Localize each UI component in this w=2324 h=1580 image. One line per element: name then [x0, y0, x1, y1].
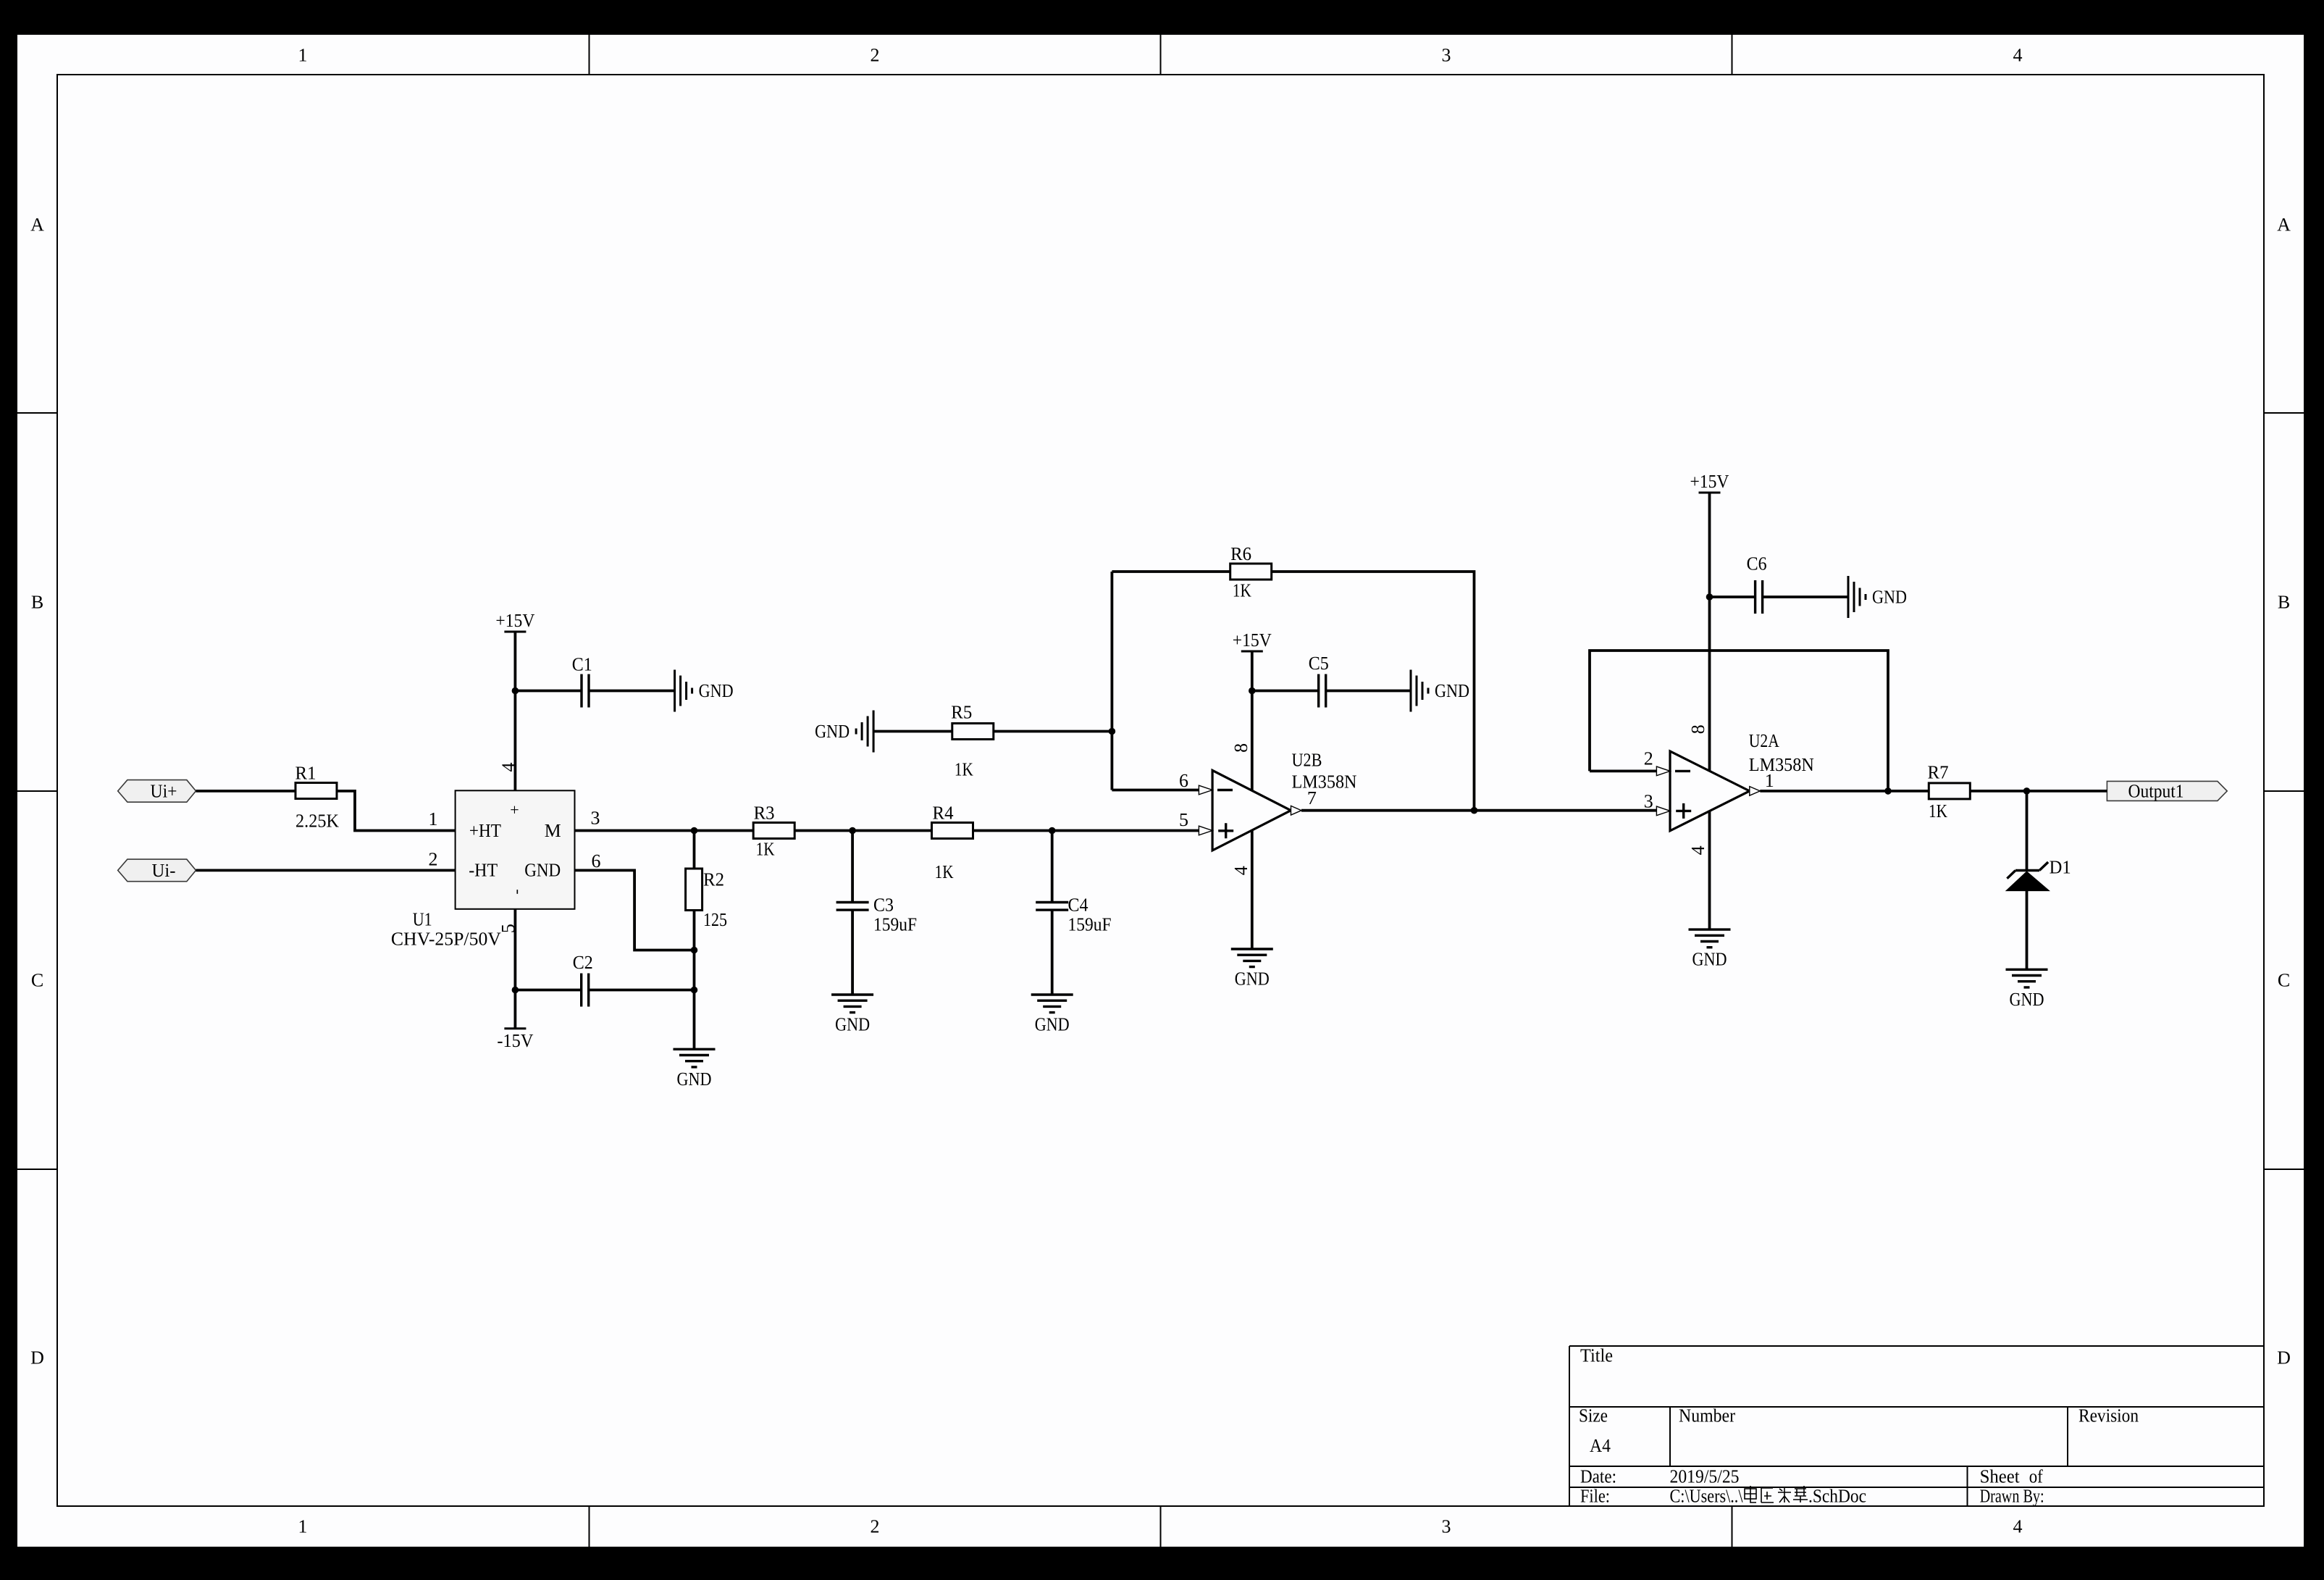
- wire C5 to GND: [1326, 690, 1411, 693]
- svg-text:GND: GND: [815, 721, 850, 742]
- capacitor C1: [572, 653, 592, 707]
- ground at C5: [1411, 670, 1428, 712]
- wire output node to D1: [2026, 791, 2029, 871]
- svg-text:6: 6: [592, 850, 601, 871]
- wire C1 left: [515, 690, 582, 693]
- ground at C3: [831, 995, 873, 1013]
- svg-text:159uF: 159uF: [873, 914, 917, 935]
- svg-text:1K: 1K: [955, 758, 973, 779]
- wire C5 left: [1252, 690, 1319, 693]
- svg-text:File:: File:: [1580, 1486, 1610, 1507]
- node U1 +15V / C1: [512, 687, 519, 695]
- node R5 / R6 net: [1109, 728, 1116, 735]
- svg-text:C6: C6: [1747, 553, 1767, 574]
- power +15V at U2A: [1699, 492, 1721, 494]
- wire C2 to R2 net: [589, 989, 695, 992]
- IC U1 CHV-25P/50V body: [456, 790, 575, 909]
- svg-text:D1: D1: [2050, 856, 2071, 877]
- ground at R2/C2: [674, 1049, 716, 1067]
- wire D1 to GND: [2026, 891, 2029, 970]
- file path CJK char cai: [1778, 1487, 1791, 1502]
- svg-text:+HT: +HT: [469, 820, 501, 841]
- wire R2 bottom to GND: [693, 911, 696, 1050]
- svg-text:D: D: [2277, 1347, 2291, 1368]
- svg-text:R2: R2: [703, 869, 724, 890]
- svg-text:5: 5: [1179, 809, 1188, 830]
- svg-text:GND: GND: [699, 680, 734, 701]
- node output / D1: [2023, 787, 2031, 795]
- svg-text:R3: R3: [754, 803, 775, 824]
- wire R3 to R4: [794, 829, 934, 832]
- ground at D1: [2006, 969, 2048, 987]
- svg-text:4: 4: [1687, 845, 1708, 855]
- power -15V at U1: [504, 1027, 526, 1029]
- svg-text:5: 5: [498, 924, 519, 933]
- resistor R4: [932, 803, 973, 883]
- svg-text:2: 2: [429, 849, 438, 870]
- capacitor C6: [1747, 553, 1767, 614]
- node pin6 / R2: [691, 947, 698, 954]
- svg-text:3: 3: [1442, 45, 1451, 66]
- svg-text:U1: U1: [413, 909, 432, 930]
- svg-text:2: 2: [871, 45, 880, 66]
- power +15V at U1: [504, 631, 526, 633]
- wire R6 right to U2B output: [1271, 572, 1474, 811]
- svg-text:Ui-: Ui-: [152, 860, 176, 881]
- svg-text:R6: R6: [1230, 543, 1251, 564]
- svg-text:7: 7: [1307, 787, 1317, 808]
- svg-text:C4: C4: [1068, 894, 1088, 915]
- wire +15V to U2B pin8: [1251, 651, 1254, 790]
- svg-text:Title: Title: [1580, 1345, 1613, 1366]
- svg-text:4: 4: [2013, 1516, 2023, 1537]
- svg-text:R4: R4: [933, 803, 954, 824]
- svg-text:B: B: [31, 592, 43, 613]
- node M line / C3: [849, 827, 856, 835]
- port Ui-: [118, 859, 196, 882]
- svg-text:3: 3: [591, 808, 600, 829]
- svg-text:GND: GND: [677, 1069, 712, 1090]
- wire C3 top: [851, 831, 854, 903]
- svg-text:+: +: [510, 801, 519, 819]
- ground at C4: [1031, 995, 1073, 1013]
- svg-text:Revision: Revision: [2078, 1405, 2139, 1426]
- svg-text:U2A: U2A: [1749, 730, 1779, 751]
- wire U2A pin2 stub: [1590, 770, 1656, 773]
- svg-text:.SchDoc: .SchDoc: [1808, 1486, 1866, 1507]
- svg-text:Ui+: Ui+: [151, 781, 177, 802]
- svg-text:C: C: [2278, 970, 2290, 991]
- capacitor C4: [1036, 894, 1111, 935]
- svg-text:1: 1: [429, 808, 438, 829]
- svg-text:GND: GND: [524, 860, 561, 881]
- svg-text:of: of: [2029, 1466, 2043, 1487]
- svg-text:1K: 1K: [935, 861, 954, 882]
- zone column labels bottom: [298, 1516, 2023, 1537]
- svg-text:2: 2: [871, 1516, 880, 1537]
- svg-text:125: 125: [703, 909, 727, 930]
- node U2B out / R6: [1471, 807, 1478, 814]
- svg-text:1: 1: [298, 45, 308, 66]
- op-amp U2A: [1656, 751, 1760, 831]
- svg-text:GND: GND: [835, 1014, 870, 1035]
- svg-text:A: A: [2277, 214, 2291, 235]
- svg-text:2.25K: 2.25K: [295, 810, 339, 831]
- file path CJK char ya: [1761, 1488, 1774, 1502]
- svg-text:C: C: [31, 970, 43, 991]
- svg-text:1K: 1K: [1233, 580, 1251, 601]
- node U2B +15V / C5: [1249, 687, 1256, 695]
- svg-text:LM358N: LM358N: [1749, 754, 1814, 775]
- power +15V at U2B: [1241, 651, 1263, 653]
- ground at R5: [856, 711, 873, 753]
- port Output1: [2107, 781, 2227, 802]
- wire U1 pin5 to -15V: [514, 909, 517, 1029]
- capacitor C2: [573, 952, 593, 1006]
- wire U2A output to R7: [1760, 790, 1929, 793]
- svg-text:R1: R1: [295, 762, 316, 783]
- resistor R3: [753, 803, 794, 860]
- diode D1 zener: [2006, 856, 2071, 890]
- wire R6 left: [1112, 570, 1230, 573]
- resistor R7: [1928, 762, 1971, 822]
- svg-text:C3: C3: [873, 894, 894, 915]
- svg-text:+15V: +15V: [495, 610, 534, 631]
- svg-text:M: M: [545, 820, 561, 841]
- wire R6 net vertical: [1111, 572, 1114, 790]
- svg-text:U2B: U2B: [1292, 750, 1322, 771]
- svg-text:GND: GND: [1035, 1014, 1070, 1035]
- svg-text:LM358N: LM358N: [1292, 772, 1357, 793]
- svg-text:C5: C5: [1309, 653, 1329, 674]
- svg-text:GND: GND: [1692, 949, 1727, 970]
- svg-text:R7: R7: [1928, 762, 1949, 783]
- zone row labels left: [30, 214, 44, 1368]
- wire U1 pin3 M to R3: [575, 829, 755, 832]
- wire C1 to GND: [589, 690, 675, 693]
- wire U1 pin6 jog: [575, 870, 695, 950]
- svg-text:8: 8: [1230, 743, 1251, 753]
- wire C6 to GND: [1763, 595, 1848, 598]
- wire U2B output to U2A pin3: [1301, 809, 1656, 812]
- svg-text:+15V: +15V: [1690, 471, 1729, 492]
- svg-text:4: 4: [2013, 45, 2023, 66]
- svg-text:1: 1: [1765, 770, 1774, 791]
- zone row labels right: [2277, 214, 2291, 1368]
- wire +15V to U2A pin8: [1708, 493, 1711, 771]
- op-amp U2B: [1199, 770, 1301, 850]
- svg-text:D: D: [30, 1347, 44, 1368]
- wire Ui- to U1 pin2: [196, 869, 456, 872]
- svg-text:Sheet: Sheet: [1980, 1466, 2021, 1487]
- svg-text:2: 2: [1644, 748, 1653, 769]
- svg-text:1K: 1K: [756, 839, 775, 860]
- wire U2B pin4 to GND: [1251, 830, 1254, 949]
- port Ui+: [118, 780, 196, 803]
- svg-text:3: 3: [1442, 1516, 1451, 1537]
- svg-text:Date:: Date:: [1580, 1466, 1616, 1487]
- svg-text:CHV-25P/50V: CHV-25P/50V: [391, 929, 501, 950]
- node U2A out / feedback: [1884, 787, 1892, 795]
- svg-text:Size: Size: [1579, 1405, 1608, 1426]
- svg-text:2019/5/25: 2019/5/25: [1670, 1466, 1740, 1487]
- svg-text:GND: GND: [2010, 989, 2044, 1010]
- wire Ui+ to R1: [196, 790, 296, 793]
- wire R2 top: [693, 831, 696, 869]
- resistor R1: [295, 762, 340, 831]
- ground at U2A pin4: [1689, 929, 1731, 948]
- capacitor C5: [1309, 653, 1329, 707]
- svg-text:B: B: [2278, 592, 2290, 613]
- svg-text:6: 6: [1179, 770, 1188, 791]
- svg-text:GND: GND: [1872, 587, 1907, 608]
- resistor R5: [951, 701, 994, 779]
- svg-text:GND: GND: [1235, 969, 1270, 990]
- svg-text:+15V: +15V: [1233, 630, 1272, 651]
- wire C6 left: [1710, 595, 1755, 598]
- wire C4 top: [1051, 831, 1054, 903]
- svg-text:Number: Number: [1679, 1405, 1735, 1426]
- svg-text:R5: R5: [951, 701, 972, 722]
- zone column labels top: [298, 45, 2023, 66]
- wire R5 to feedback node: [993, 730, 1112, 733]
- wire GND to R5: [873, 730, 952, 733]
- node C2 / R2: [691, 987, 698, 994]
- wire C4 bottom to GND: [1051, 910, 1054, 995]
- svg-text:GND: GND: [1435, 680, 1469, 701]
- svg-text:C:\Users\..\: C:\Users\..\: [1670, 1486, 1744, 1507]
- wire R4 to U2B pin5: [971, 829, 1199, 832]
- svg-text:C2: C2: [573, 952, 593, 973]
- wire U2A pin4 to GND: [1708, 811, 1711, 930]
- svg-text:8: 8: [1687, 724, 1708, 734]
- resistor R2: [686, 869, 727, 930]
- node M line / C4: [1049, 827, 1056, 835]
- resistor R6: [1230, 543, 1272, 601]
- ground at U2B pin4: [1231, 949, 1273, 967]
- wire U2A feedback loop: [1590, 651, 1888, 791]
- file path CJK char ji: [1793, 1486, 1808, 1502]
- svg-text:A4: A4: [1590, 1435, 1611, 1456]
- file path CJK char dian: [1745, 1486, 1756, 1502]
- wire +15V to U1 pin4: [514, 632, 517, 790]
- wire R1 to U1 pin1: [337, 791, 456, 831]
- svg-text:3: 3: [1644, 790, 1653, 811]
- svg-text:-15V: -15V: [497, 1030, 533, 1051]
- svg-text:1: 1: [298, 1516, 308, 1537]
- node U2A +15V / C6: [1706, 593, 1713, 601]
- svg-text:4: 4: [498, 763, 519, 772]
- svg-text:159uF: 159uF: [1068, 914, 1112, 935]
- svg-text:A: A: [30, 214, 44, 235]
- svg-text:-: -: [507, 889, 525, 894]
- title block grid: [1569, 1346, 2264, 1506]
- svg-text:4: 4: [1230, 866, 1251, 875]
- node M line / R2: [691, 827, 698, 835]
- ground at C6: [1848, 576, 1866, 618]
- ground at C1: [675, 670, 692, 712]
- capacitor C3: [836, 894, 917, 935]
- svg-text:Output1: Output1: [2128, 781, 2184, 802]
- node U1 -15V / C2: [512, 987, 519, 994]
- svg-text:Drawn By:: Drawn By:: [1980, 1486, 2044, 1507]
- svg-text:-HT: -HT: [469, 860, 498, 881]
- svg-text:1K: 1K: [1929, 801, 1947, 822]
- wire C2 left: [515, 989, 581, 992]
- wire to U2B pin6: [1112, 789, 1199, 792]
- svg-text:C1: C1: [572, 653, 592, 674]
- wire R7 to Output1: [1970, 790, 2107, 793]
- wire C3 bottom to GND: [851, 910, 854, 995]
